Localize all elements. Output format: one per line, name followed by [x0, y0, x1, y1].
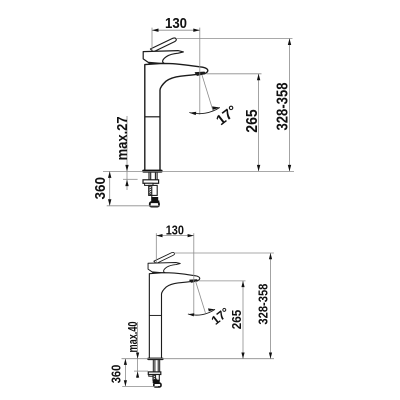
dimension 360 (bottom): bottom tick line: [122, 385, 158, 387]
dimension max.40 (bottom): washer extension line: [134, 370, 148, 372]
dimension 265 (top): bottom arrow: [257, 165, 260, 172]
dimension 328-358 (bottom): top arrow: [269, 253, 272, 259]
under-deck: shank rods: [149, 173, 157, 180]
under-deck2: threaded shank: [153, 375, 159, 381]
under-deck2: mounting washer: [148, 372, 161, 375]
dimension max.40 (bottom): up arrow under washer line: [136, 371, 139, 377]
angle 17deg (top): arc left arrow: [189, 112, 196, 115]
dimension 360 (top): top arrow: [108, 171, 111, 178]
extension line from spout tip (bottom): [199, 280, 246, 282]
dimension max.40 (bottom): down arrow at deck: [136, 353, 139, 359]
dimension 360 (top): line: [109, 171, 111, 205]
dimension 328-358 (bottom): line: [270, 253, 272, 359]
dimension max.27 (top): up arrow under washer line: [125, 180, 128, 187]
extension line from lever tip (bottom): [174, 252, 274, 254]
dimension 328-358 (top): top arrow: [288, 39, 291, 46]
extension line from spout tip (top): [207, 73, 262, 75]
dimension max.27 (top): washer extension line: [123, 178, 138, 180]
dimension 265 (top): top arrow: [257, 74, 260, 81]
dimension 130 (bottom): right arrow: [188, 234, 194, 237]
extension line from lever tip (top): [177, 38, 293, 40]
dimension 328-358 (bottom): bottom arrow: [269, 353, 272, 359]
svg-text:328-358: 328-358: [274, 82, 291, 130]
dimension max.40 (bottom): vertical line: [137, 322, 139, 378]
dimension 130 (bottom): extension line left: [155, 233, 157, 262]
dimension max.27 (top): down arrow at deck: [125, 165, 128, 172]
angle 17deg (bottom): arc left arrow: [188, 313, 194, 316]
angle 17deg (top): arc right arrow: [212, 106, 220, 109]
dimension 265 (bottom): bottom arrow: [241, 353, 244, 359]
angle 17deg (top): slanted line: [202, 75, 213, 111]
svg-text:max.27: max.27: [114, 116, 131, 160]
svg-text:265: 265: [244, 109, 261, 133]
dimension 130 (top): left arrow: [152, 29, 159, 32]
svg-text:265: 265: [229, 310, 244, 330]
svg-text:max.40: max.40: [125, 322, 140, 353]
svg-text:130: 130: [165, 16, 187, 32]
deck line (bottom): [122, 358, 275, 360]
dimension 130 (bottom): dimension line: [156, 235, 194, 237]
under-deck: hose end horseshoe: [150, 202, 159, 206]
faucet bottom view (scaled copy): [147, 252, 199, 360]
under-deck: nut flange tick: [158, 201, 160, 203]
dimension 360 (bottom): top arrow: [124, 359, 127, 365]
dimension 328-358 (top): line: [289, 39, 291, 172]
under-deck: shank thread hatching: [149, 185, 152, 195]
svg-text:130: 130: [166, 224, 184, 238]
under-deck2: hose end horseshoe: [154, 383, 161, 387]
dimension 265 (bottom): top arrow: [241, 281, 244, 287]
dimension 130 (top): dimension line: [152, 29, 200, 31]
dimension 360 (top): bottom arrow: [108, 199, 111, 206]
dimension 130 (bottom): extension line right through spout: [193, 233, 195, 315]
under-deck2: shank hatching: [153, 375, 157, 380]
under-deck2: washer step: [149, 375, 155, 377]
angle 17deg (bottom): arc: [188, 309, 215, 315]
dimension 130 (bottom): left arrow: [156, 234, 162, 237]
svg-text:328-358: 328-358: [257, 284, 271, 325]
dimension 130 (top): extension line left: [151, 28, 153, 51]
dimension 265 (bottom): line: [242, 281, 244, 359]
under-deck: mounting washer: [143, 180, 159, 184]
under-deck: threaded shank: [149, 185, 158, 195]
dimension max.27 (top): vertical line: [126, 116, 128, 190]
faucet top view: [142, 38, 208, 173]
deck line (top): [103, 170, 294, 172]
angle 17deg (top): arc: [189, 108, 220, 114]
dimension 265 (top): line: [258, 74, 260, 172]
dimension 360 (bottom): bottom arrow: [124, 380, 127, 386]
angle 17deg (bottom): slanted line: [196, 281, 206, 313]
under-deck: washer step: [145, 183, 153, 185]
angle 17deg (bottom): arc right arrow: [208, 308, 215, 311]
svg-text:360: 360: [110, 365, 124, 384]
svg-text:360: 360: [92, 177, 109, 200]
under-deck: nut (black): [151, 197, 158, 202]
dimension 360 (top): bottom tick line: [107, 205, 160, 207]
dimension 328-358 (top): bottom arrow: [288, 165, 291, 172]
under-deck2: nut (black): [153, 380, 160, 383]
dimension 360 (bottom): line: [124, 359, 126, 387]
dimension 130 (top): extension line right through spout: [199, 28, 201, 115]
dimension 130 (top): right arrow: [193, 29, 200, 32]
under-deck2: shank rods: [153, 360, 159, 372]
